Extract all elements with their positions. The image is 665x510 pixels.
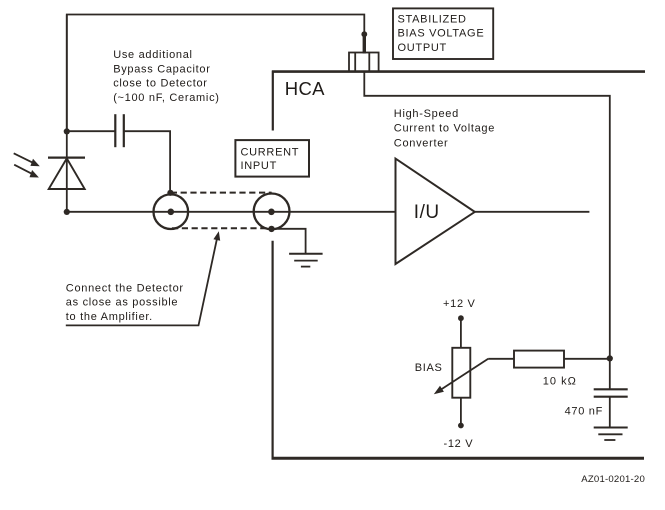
node: photodiode cathode junction dot [64, 128, 70, 134]
node: coax J1 center pin dot [268, 209, 275, 216]
node: bias junction dot [607, 355, 613, 361]
wire: capacitor C2 to ground [609, 397, 611, 428]
node: -12V terminal dot [458, 423, 464, 429]
ground: chassis ground at current input [289, 253, 323, 255]
svg-text:Bypass Capacitor: Bypass Capacitor [113, 63, 210, 75]
wire: +12V dot to potentiometer top [460, 318, 462, 348]
wire: cathode node to capacitor left plate [67, 130, 116, 132]
potentiometer R1 wiper arrow [442, 359, 488, 389]
node: bias wire to connector pin junction dot [361, 31, 367, 37]
wire: potentiometer bottom to -12V dot [460, 398, 462, 426]
pin: thick connector pin of bias output feed-through [363, 34, 366, 54]
connector P1 coax plug (detector side) circle [154, 194, 189, 229]
svg-text:I/U: I/U [414, 202, 440, 223]
svg-text:CURRENT: CURRENT [241, 147, 300, 159]
svg-text:Connect the Detector: Connect the Detector [66, 283, 184, 295]
wire: wiper to resistor R2 [488, 358, 514, 360]
light arrow 2 into photodiode [14, 165, 31, 174]
svg-text:Current to Voltage: Current to Voltage [394, 123, 495, 135]
node: +12V terminal dot [458, 315, 464, 321]
svg-text:470 nF: 470 nF [565, 406, 603, 418]
capacitor bypass ~100nF left plate [114, 114, 116, 147]
svg-text:-12 V: -12 V [444, 438, 474, 450]
box: HCA amplifier enclosure left edge upper segment [272, 71, 274, 131]
wire: capacitor right plate to coax connector top [124, 131, 170, 193]
svg-text:to the Amplifier.: to the Amplifier. [66, 311, 153, 323]
label box: CURRENT INPUT [235, 140, 309, 177]
capacitor C2 470nF top plate [594, 388, 628, 390]
photodiode D1 cathode bar [48, 157, 85, 159]
box: HCA amplifier enclosure bottom edge [272, 457, 645, 460]
svg-text:OUTPUT: OUTPUT [398, 42, 447, 54]
connector J2 feed-through (stabilized bias voltage output) body [349, 53, 379, 72]
wire: resistor R2 to bias junction [564, 358, 610, 360]
cable: shielded coax bottom dashed run [172, 227, 272, 229]
callout: underline and leader line to coax cable [66, 240, 217, 326]
wire: op-amp output [475, 211, 589, 213]
svg-text:as close as possible: as close as possible [66, 297, 178, 309]
wire: photodiode vertical through-wire [66, 15, 68, 212]
connector J1 coax jack CURRENT INPUT circle [254, 194, 290, 230]
light arrow 1 into photodiode [14, 153, 32, 162]
svg-text:(~100 nF, Ceramic): (~100 nF, Ceramic) [113, 92, 219, 104]
svg-text:AZ01-0201-20: AZ01-0201-20 [581, 474, 645, 485]
op-amp U1 current-to-voltage converter triangle [396, 159, 475, 264]
box: HCA amplifier enclosure left edge lower segment [272, 241, 274, 459]
svg-text:HCA: HCA [285, 78, 325, 99]
label box: STABILIZED BIAS VOLTAGE OUTPUT [393, 8, 493, 59]
svg-text:BIAS: BIAS [415, 362, 443, 374]
node: coax J1 shield bottom dot [268, 226, 274, 232]
svg-text:High-Speed: High-Speed [394, 108, 459, 120]
wire: main signal line from anode node through coax connectors to op-amp input [67, 211, 395, 213]
callout: leader arrowhead [213, 231, 220, 241]
wire: J1 shield to chassis ground [272, 229, 306, 254]
svg-text:Use additional: Use additional [113, 49, 193, 61]
photodiode D1 triangle (anode) [49, 158, 85, 189]
svg-text:close to Detector: close to Detector [113, 78, 207, 90]
wire: bias supply top horizontal from photodiode cathode node to connector drop [67, 15, 365, 132]
node: coax P1 center pin dot [168, 209, 175, 216]
svg-text:+12 V: +12 V [443, 298, 476, 310]
resistor R2 10 kOhm body [514, 351, 564, 368]
svg-text:BIAS VOLTAGE: BIAS VOLTAGE [398, 28, 485, 40]
svg-text:STABILIZED: STABILIZED [398, 13, 467, 25]
wire: from connector down inside box, right and down to bias junction [364, 72, 610, 389]
svg-text:10 kΩ: 10 kΩ [543, 376, 577, 388]
node: coax P1 shield top dot [167, 190, 173, 196]
box: HCA amplifier enclosure top edge [272, 70, 645, 73]
svg-text:INPUT: INPUT [241, 160, 278, 172]
potentiometer R1 BIAS body [452, 348, 470, 398]
svg-text:Converter: Converter [394, 138, 449, 150]
capacitor bypass ~100nF right plate [123, 114, 125, 147]
node: photodiode anode junction dot [64, 209, 70, 215]
cable: shielded coax top dashed run [171, 192, 272, 194]
ground: earth ground at 470nF [594, 427, 628, 429]
capacitor C2 470nF bottom plate [594, 396, 628, 398]
